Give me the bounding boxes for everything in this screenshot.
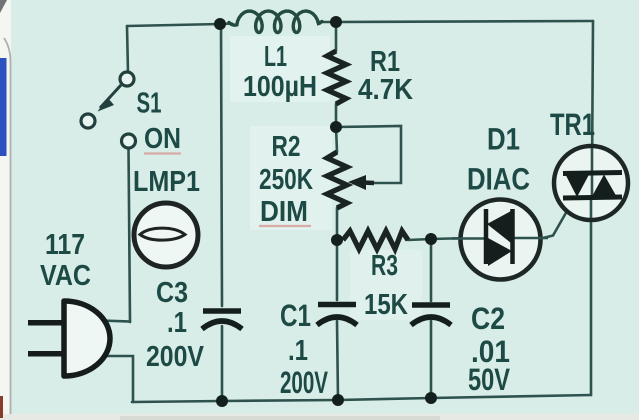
light patch L1 xyxy=(230,36,330,102)
plug prong top xyxy=(28,320,65,326)
wire R2 to junction xyxy=(336,208,339,240)
light patch R2 xyxy=(250,126,332,230)
wire C1 upper xyxy=(336,240,339,300)
DIM underline xyxy=(259,225,311,227)
svg-text:VAC: VAC xyxy=(40,260,91,292)
diac D1 circle xyxy=(461,200,541,280)
svg-text:R2: R2 xyxy=(272,131,301,163)
bottom grey strip xyxy=(0,414,639,420)
svg-text:117: 117 xyxy=(45,229,85,261)
svg-text:50V: 50V xyxy=(468,362,510,397)
triac left triangle xyxy=(566,176,589,198)
resistor R3 xyxy=(343,231,408,249)
wire left vertical lower xyxy=(129,148,131,322)
page margin strip xyxy=(0,0,11,420)
svg-text:TR1: TR1 xyxy=(550,107,595,142)
svg-text:S1: S1 xyxy=(137,88,162,120)
wire wiper loop xyxy=(336,126,401,183)
svg-text:200V: 200V xyxy=(146,341,205,373)
capacitor C3 xyxy=(202,311,242,329)
lamp lens xyxy=(140,228,185,240)
wire junction to R2 xyxy=(336,127,337,152)
svg-text:100µH: 100µH xyxy=(243,71,317,103)
lamp LMP1 circle xyxy=(134,203,198,267)
diac left bar xyxy=(484,209,489,264)
svg-text:ON: ON xyxy=(144,123,181,155)
node R2-R3-C1 xyxy=(331,234,343,246)
diac top triangle xyxy=(487,211,511,243)
svg-text:C3: C3 xyxy=(156,277,188,309)
node top C3 xyxy=(214,18,226,30)
inductor L1 xyxy=(229,11,322,33)
node top R1 xyxy=(330,16,342,28)
page edge grey line xyxy=(4,38,11,420)
svg-text:200V: 200V xyxy=(280,365,328,400)
triac inner leads xyxy=(591,148,594,196)
svg-text:.1: .1 xyxy=(288,335,308,367)
wire C1 lower xyxy=(337,321,338,400)
diac right bar xyxy=(510,209,515,264)
switch pole circle xyxy=(120,72,134,86)
node bottom C1 xyxy=(332,394,344,406)
resistor R1 xyxy=(327,51,346,104)
wire bottom xyxy=(132,395,591,402)
capacitor C2 xyxy=(411,305,451,325)
wire C3 lower xyxy=(221,326,224,401)
node R1-R2 xyxy=(330,121,342,133)
wire plug top lead xyxy=(100,321,130,322)
ON underline xyxy=(144,152,181,154)
switch ON circle xyxy=(122,134,136,148)
svg-text:R3: R3 xyxy=(371,250,398,282)
svg-text:DIAC: DIAC xyxy=(467,162,530,197)
plug body xyxy=(64,301,110,376)
wire triac bottom lead xyxy=(590,197,593,395)
triac top bar xyxy=(563,173,622,174)
triac TR1 circle xyxy=(554,146,628,220)
gate wire diac to triac xyxy=(543,211,567,238)
node R3-C2 xyxy=(425,233,437,245)
blue bar xyxy=(0,58,7,156)
capacitor C1 xyxy=(317,305,357,326)
node bottom C2 xyxy=(425,392,437,404)
svg-text:C1: C1 xyxy=(280,298,311,333)
svg-text:.1: .1 xyxy=(167,307,187,339)
wire top xyxy=(127,24,232,26)
svg-text:LMP1: LMP1 xyxy=(133,166,200,198)
wire C2 lower xyxy=(430,321,433,398)
plug prong bottom xyxy=(28,351,65,357)
light patch R3 xyxy=(350,250,422,320)
wire plug bottom lead xyxy=(100,356,133,402)
triac right triangle xyxy=(593,175,617,196)
svg-text:D1: D1 xyxy=(487,122,520,157)
diac bottom triangle xyxy=(488,238,512,266)
R2 wiper arrow xyxy=(362,180,374,185)
wire C3 branch xyxy=(221,24,222,306)
wire node to diac xyxy=(431,238,470,239)
wire triac top lead xyxy=(592,21,593,175)
switch arrowhead xyxy=(98,98,115,112)
wire left vertical upper xyxy=(127,26,128,73)
corner mark top-left xyxy=(0,0,7,13)
diac leads crossing xyxy=(452,237,486,239)
wire C2 upper xyxy=(430,239,433,301)
red sliver bottom-left xyxy=(0,396,3,418)
node bottom C3 xyxy=(216,395,228,407)
svg-text:250K: 250K xyxy=(259,164,313,196)
triac bottom bar xyxy=(563,197,622,198)
svg-text:C2: C2 xyxy=(471,301,505,336)
svg-text:15K: 15K xyxy=(364,289,408,321)
svg-text:L1: L1 xyxy=(264,41,287,73)
svg-text:DIM: DIM xyxy=(260,196,308,228)
wire R1 top xyxy=(335,22,338,51)
svg-text:4.7K: 4.7K xyxy=(358,74,413,106)
switch S1 arm xyxy=(100,85,121,108)
wire R3 right to C2 node xyxy=(408,239,431,240)
switch off circle xyxy=(81,114,95,128)
resistor R2 xyxy=(327,152,347,208)
wire R1 to junction xyxy=(335,104,338,127)
wire top right xyxy=(319,21,593,22)
